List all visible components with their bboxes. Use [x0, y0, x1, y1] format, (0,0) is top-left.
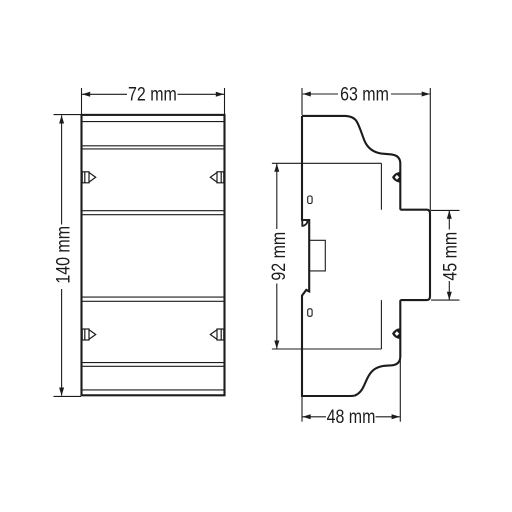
arrow 72mm right: [216, 92, 224, 97]
clip bottom-left: [82, 329, 96, 340]
front view outline box: [82, 115, 225, 395]
dimension 48mm line: [303, 416, 327, 418]
front inner line y122: [83, 121, 224, 123]
dimension 45mm line: [448, 211, 450, 230]
arrow 45mm up: [447, 211, 452, 219]
dimension 63mm line: [303, 93, 338, 95]
front inner line pair y297/301: [83, 296, 224, 298]
din rail recess rect: [309, 240, 325, 271]
svg-text:48 mm: 48 mm: [327, 406, 376, 428]
arrow 140mm down: [59, 388, 64, 396]
dimension 63mm extensions: [301, 88, 303, 115]
svg-text:72 mm: 72 mm: [128, 83, 177, 105]
screw detail bottom: [392, 328, 400, 339]
dimension 140mm extension lines: [54, 114, 82, 116]
arrow 92mm up: [274, 164, 279, 172]
screw top white diamond: [395, 175, 400, 180]
arrow 48mm left: [303, 414, 311, 419]
slot top: [308, 196, 312, 204]
dimension 72mm line: [82, 93, 127, 95]
side inner vertical top: [380, 163, 382, 209]
arrow 48mm right: [392, 414, 400, 419]
arrow 92mm down: [274, 341, 279, 349]
svg-text:92 mm: 92 mm: [268, 232, 290, 281]
clip top-right: [210, 172, 224, 183]
front inner line pair y210/215: [83, 210, 224, 212]
dimension 45mm extensions: [431, 209, 460, 211]
arrow 140mm up: [59, 115, 64, 123]
side inner bottom edge y349: [303, 348, 382, 350]
din clip hook curl: [302, 220, 307, 226]
dimension 48mm extensions: [301, 396, 303, 422]
clip top-left: [82, 172, 96, 183]
arrow 63mm right: [422, 92, 430, 97]
side outline profile: [302, 116, 400, 210]
clip bottom-right: [210, 329, 224, 340]
screw detail top: [392, 172, 400, 183]
arrow 72mm left: [82, 92, 90, 97]
dimension 92mm extensions: [272, 162, 303, 164]
dimension 140mm line: [61, 115, 63, 224]
arrow 45mm down: [447, 292, 452, 300]
side inner top edge y163: [303, 162, 382, 164]
side inner vertical bottom: [380, 300, 382, 349]
svg-text:140 mm: 140 mm: [52, 226, 74, 284]
front inner line pair y362/366: [83, 362, 224, 364]
screw bottom white diamond: [395, 331, 400, 336]
svg-text:45 mm: 45 mm: [439, 232, 461, 281]
front inner line y390: [83, 389, 224, 391]
front inner line pair y146/149: [83, 145, 224, 147]
arrow 63mm left: [303, 92, 311, 97]
slot bottom: [308, 309, 312, 317]
dimension 72mm extension lines: [81, 88, 83, 114]
svg-text:63 mm: 63 mm: [340, 83, 389, 105]
dimension 92mm line: [276, 164, 278, 229]
